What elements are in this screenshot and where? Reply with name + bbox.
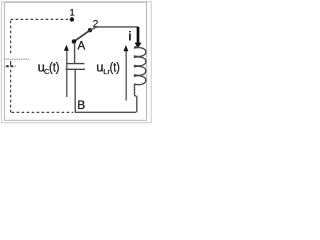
wire dashed top (battery branch to contact 1) <box>11 18 70 20</box>
svg-text:i: i <box>128 29 132 44</box>
voltage arrow uC <box>66 50 68 97</box>
wire dashed left lower <box>10 70 12 113</box>
wire stub between battery plates <box>10 61 12 65</box>
svg-text:A: A <box>78 40 86 52</box>
capacitor C1 top plate <box>66 63 84 65</box>
svg-text:1: 1 <box>70 7 75 17</box>
battery V1 short plate <box>6 65 16 67</box>
wire dashed bottom (to node B) <box>12 111 73 113</box>
wire right lower (inductor bottom lead) <box>135 85 137 113</box>
wire bottom (B to inductor branch) <box>75 111 137 113</box>
wire A to capacitor <box>74 43 76 64</box>
wire dashed left upper <box>10 21 12 56</box>
current arrow i <box>137 27 140 43</box>
switch contact 1 <box>70 17 74 21</box>
battery V1 long plate <box>5 58 29 60</box>
switch contact 2 <box>88 28 92 32</box>
inductor Lr coil <box>135 47 146 86</box>
wire top right (contact 2 to corner) <box>91 27 139 30</box>
svg-text:(t): (t) <box>49 59 60 74</box>
capacitor C1 bottom plate <box>65 68 85 70</box>
voltage arrow uLr <box>125 51 127 101</box>
inner border frame <box>4 2 146 120</box>
svg-text:(t): (t) <box>110 59 120 74</box>
node A <box>72 39 77 44</box>
wire capacitor to bottom <box>74 69 76 113</box>
switch lever S1 (A to 2) <box>74 30 90 41</box>
svg-text:B: B <box>77 98 85 112</box>
outer border frame <box>1 2 151 123</box>
